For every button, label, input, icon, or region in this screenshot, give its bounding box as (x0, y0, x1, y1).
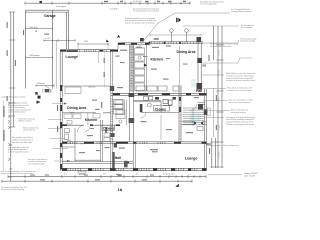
wall: cloaksL top y126.4 (62, 124, 120, 126)
dim: hall dim line x213 (180, 46, 214, 137)
svg-text:Kitchen: Kitchen (151, 57, 163, 61)
svg-text:with insulated screed: with insulated screed (28, 162, 44, 165)
mark: west wall extra seg (60, 105, 62, 111)
fixture: kitchen R units row bottom (136, 86, 179, 91)
svg-text:Garage: Garage (44, 14, 56, 18)
wall: lounge bottom y86 (60, 85, 111, 87)
mark: dining east pier (197, 37, 202, 42)
door arc: hall entrance (190, 104, 196, 110)
dim: top dimension line (25, 2, 190, 5)
fixture: basin cluster right (155, 97, 176, 106)
wall: east wall dark segs (197, 58, 202, 63)
wall: spine junction blobs (110, 86, 114, 91)
fixture: circle column left with stem (170, 29, 174, 42)
svg-text:to be removed: to be removed (241, 26, 252, 29)
wall: chimney bar bottom strip (112, 152, 115, 168)
mark: entrance steps left house (78, 172, 86, 174)
stairs: left house treads vertical (115, 100, 127, 125)
wall: cloaks right box (134, 100, 180, 112)
svg-text:Cloaks: Cloaks (155, 107, 166, 111)
wall: hall bottom double (181, 122, 207, 124)
svg-text:2.14 3.46: 2.14 3.46 (110, 8, 118, 10)
wall: lounge R left double (134, 142, 136, 170)
svg-text:3650 max: 3650 max (37, 83, 45, 85)
svg-text:3280: 3280 (154, 38, 160, 41)
svg-text:1090: 1090 (206, 143, 212, 146)
fixture: kitchen L units row (64, 113, 100, 125)
door arc: lounge left (45, 87, 51, 93)
fixture: under stairs rects (104, 133, 110, 142)
svg-text:Hall: Hall (196, 89, 202, 93)
svg-text:200: 200 (202, 65, 207, 68)
svg-text:and new lintel inserted: and new lintel inserted (8, 111, 25, 114)
svg-text:Lounge: Lounge (66, 55, 78, 59)
svg-text:new paved patio area to rear g: new paved patio area to rear garden leve… (1, 172, 34, 175)
dim: left chevrons (8, 102, 10, 161)
dim: garage internal y28.5 (26, 27, 53, 30)
wall: party wall lower double (130, 91, 134, 142)
leader: left leaders (48, 104, 70, 162)
svg-text:existing dwelling adjacent: existing dwelling adjacent (231, 10, 251, 13)
leader: bottom right (208, 174, 242, 176)
fixture: lounge sideboard rect (65, 87, 81, 93)
leader: right side leaders (202, 58, 240, 146)
leader: diagonal site line (138, 13, 230, 48)
dim: left lounge y85 (36, 84, 54, 87)
svg-text:Dining Area: Dining Area (177, 50, 196, 54)
dim: left vertical dimension lines (9, 12, 15, 181)
svg-text:between the garage and new dwe: between the garage and new dwelling (125, 21, 154, 24)
fixture: cloaks R wc (144, 97, 153, 108)
fixture: kitchen L units column (114, 100, 125, 115)
mark: step blob at 124-128 (124, 161, 128, 168)
svg-text:Dining Area: Dining Area (67, 106, 86, 110)
svg-text:Velux roof light over: Velux roof light over (223, 144, 239, 147)
wall: hall/stair divider right house (179, 85, 181, 142)
svg-text:2590 min: 2590 min (88, 87, 95, 89)
door arc: cloaks left (85, 126, 90, 131)
wall: divider x101 double (101, 120, 103, 162)
label: Cloaks (right house) (154, 106, 170, 111)
wall: spine double left house (111, 49, 113, 168)
fixture: kitchen R units column along party wall (135, 45, 147, 91)
dim: right lounge dims (210, 138, 217, 168)
wall: west wall dark segs (60, 85, 62, 170)
mark: cloaks west dark seg (105, 127, 107, 133)
wall: dining east cavity double (198, 42, 201, 90)
dim: internal lounge width y44 (78, 43, 108, 46)
dim: garage internal y57 (26, 56, 53, 59)
svg-text:drain run at rear of property: drain run at rear of property (229, 101, 250, 104)
mark: hall east door post (204, 109, 208, 115)
dim: bottom dimension line 2 (2, 180, 192, 183)
wall: party wall junction blobs (129, 93, 135, 97)
svg-text:scale 1:50 A1: scale 1:50 A1 (244, 174, 255, 177)
dim: right rotated text marks (218, 50, 220, 158)
mark: entrance steps right house (207, 108, 210, 116)
svg-text:5090 garage: 5090 garage (30, 55, 40, 57)
svg-text:existing wall line shown dashe: existing wall line shown dashed (1, 95, 25, 98)
svg-text:Hall: Hall (115, 156, 121, 160)
svg-text:obscure glazed: obscure glazed (23, 129, 35, 132)
dim: garage width ticks y40 (44, 39, 75, 42)
dim: right vertical dimension lines (214, 26, 224, 168)
wall: lounge top (windowed double) (60, 50, 118, 52)
door arc: cloaksL door (78, 125, 85, 132)
wall: garage/house left (25, 10, 27, 88)
stairs: right house treads (183, 108, 204, 126)
wall: kitchen bottom double y93-95 (111, 93, 207, 95)
svg-text:2.0 2.6 1.8: 2.0 2.6 1.8 (133, 1, 142, 3)
leader: top right horizontal (183, 25, 239, 27)
svg-text:Line of roof over: Line of roof over (240, 57, 253, 60)
svg-text:1.4: 1.4 (103, 174, 106, 176)
wall: secondary wall y161.5-163.5 (62, 162, 133, 164)
svg-text:interlinked to alarm: interlinked to alarm (231, 111, 246, 114)
dim: small mark in garage (36, 31, 38, 33)
svg-text:insulation over and screed fin: insulation over and screed finish (227, 89, 252, 92)
wall: hall front line (75, 159, 101, 161)
svg-text:do not scale from this drawing: do not scale from this drawing (1, 188, 24, 191)
svg-text:retained as existing: retained as existing (240, 40, 255, 43)
fixture: circle column right with stem (185, 29, 189, 42)
wall: kitchen top windowed (118, 43, 150, 49)
mark: north arrow top (176, 18, 177, 22)
wall: garage internal vertical (52, 10, 54, 88)
svg-text:1.0 2.2: 1.0 2.2 (45, 38, 51, 40)
svg-text:Kitchen: Kitchen (85, 118, 97, 122)
door arc: cloaks R door (141, 113, 147, 119)
svg-text:achieve required U-values: achieve required U-values (8, 151, 28, 154)
svg-text:insulation to achieve required: insulation to achieve required U-value (226, 79, 255, 82)
svg-text:on new boundary line: on new boundary line (200, 3, 217, 6)
svg-text:100mm max openings to balustra: 100mm max openings to balustrade (226, 123, 254, 126)
wall: hall west cavity rungs (179, 88, 180, 139)
svg-text:run below ground to be confirm: run below ground to be confirmed (133, 10, 159, 13)
mark: door blob lounge west (45, 89, 49, 92)
svg-text:5090 long: 5090 long (30, 27, 38, 29)
mark: scale arrow blob (175, 184, 179, 187)
svg-text:2.1: 2.1 (64, 174, 67, 176)
wall: small room y147 (62, 146, 75, 148)
fixture: kitchen R arrow mark (144, 64, 148, 67)
noise: rotated wall text dashes (3, 22, 217, 154)
fixture: wc left house (65, 129, 71, 144)
svg-text:3.6: 3.6 (136, 174, 139, 176)
dim: bottom dimension line 1 (8, 175, 206, 178)
svg-text:Cloaks: Cloaks (103, 126, 114, 130)
wall: porch inner wall (198, 102, 205, 104)
wall: dining top windowed (150, 42, 203, 44)
svg-text:150mm insulation: 150mm insulation (18, 120, 32, 123)
wall: hall east wall double (205, 89, 207, 171)
mark: bent arrow near kitchen top-left (117, 35, 120, 38)
wall: party cavity wall hatched top (130, 45, 134, 91)
dim: cloaks dim x161 (160, 115, 162, 140)
svg-text:1.2 0.9 1.1 0.8: 1.2 0.9 1.1 0.8 (163, 174, 175, 176)
svg-text:2590: 2590 (84, 41, 88, 43)
wall: garage top (26, 10, 69, 12)
dim: lounge extension verticals (78, 43, 108, 63)
mark: hall fixtures (197, 127, 203, 131)
mark: kitchen wall pier (140, 38, 144, 41)
mark: small arrow near x108 (106, 40, 109, 43)
wall: kitchenL divider y113 (62, 112, 111, 114)
dim: line above dining wall (150, 34, 201, 37)
wall: west wall lower block double (60, 50, 62, 171)
fixture: teal stair tint (191, 114, 199, 122)
wall: divider x75 (74, 128, 76, 162)
wall: mid horizontal windowed y142-144 (62, 142, 207, 144)
svg-text:Lounge: Lounge (185, 157, 197, 161)
noise: scattered annotation specks (30, 34, 199, 181)
label: Cloaks (left house) (102, 125, 115, 130)
svg-text:1b: 1b (118, 187, 123, 192)
leader: to T5 (202, 40, 239, 43)
svg-text:and skim finish both sides: and skim finish both sides (12, 141, 32, 144)
svg-text:4.2m approx: 4.2m approx (56, 6, 66, 8)
wall: bottom outer windowed double (62, 168, 207, 170)
wall: garage right double (67, 10, 69, 49)
dim: top tick bold cluster (40, 1, 42, 3)
